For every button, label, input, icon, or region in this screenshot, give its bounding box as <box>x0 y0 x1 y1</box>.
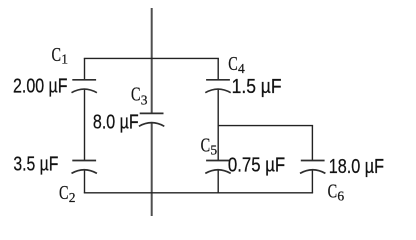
wire: right branch middle <box>217 89 219 161</box>
svg-text:2: 2 <box>69 190 76 205</box>
wire: right branch lower <box>217 170 219 193</box>
svg-text:5: 5 <box>210 143 217 158</box>
svg-text:3.5 µF: 3.5 µF <box>13 153 58 175</box>
wire: bottom horizontal <box>84 192 313 194</box>
label C3 <box>131 84 148 108</box>
svg-text:0.75 µF: 0.75 µF <box>228 154 285 176</box>
svg-text:C: C <box>52 44 62 66</box>
svg-text:C: C <box>201 135 211 157</box>
svg-text:1: 1 <box>61 52 68 67</box>
svg-text:C: C <box>228 53 238 75</box>
wire: top horizontal <box>84 57 219 59</box>
capacitor C3 <box>139 113 164 126</box>
capacitor C4 <box>205 80 230 93</box>
label C6 <box>328 181 345 204</box>
wire: far right vertical lower <box>311 170 313 193</box>
wire: center vertical bottom segment <box>151 122 153 216</box>
wire: right branch upper <box>217 58 219 79</box>
label C1 <box>52 44 69 67</box>
wire: left branch middle <box>84 89 86 161</box>
label C5 <box>201 135 218 158</box>
svg-text:6: 6 <box>337 189 344 204</box>
svg-text:1.5 µF: 1.5 µF <box>232 76 282 98</box>
svg-text:C: C <box>131 84 141 106</box>
wire: center vertical top segment <box>151 8 153 113</box>
svg-text:C: C <box>59 182 69 204</box>
wire: middle-right horizontal <box>218 125 314 127</box>
svg-text:8.0 µF: 8.0 µF <box>93 112 139 134</box>
svg-text:3: 3 <box>141 93 148 108</box>
svg-text:4: 4 <box>238 61 245 76</box>
svg-text:18.0 µF: 18.0 µF <box>329 156 384 178</box>
svg-text:C: C <box>328 181 338 203</box>
wire: left branch lower <box>84 170 86 193</box>
wire: left branch upper <box>84 58 86 79</box>
capacitor C5 <box>205 161 230 174</box>
capacitor C1 <box>72 80 97 93</box>
wire: far right vertical upper <box>311 126 313 161</box>
capacitor C2 <box>72 161 97 174</box>
label C4 <box>228 53 245 76</box>
capacitor C6 <box>300 161 325 174</box>
svg-text:2.00 µF: 2.00 µF <box>13 76 68 98</box>
label C2 <box>59 182 76 205</box>
